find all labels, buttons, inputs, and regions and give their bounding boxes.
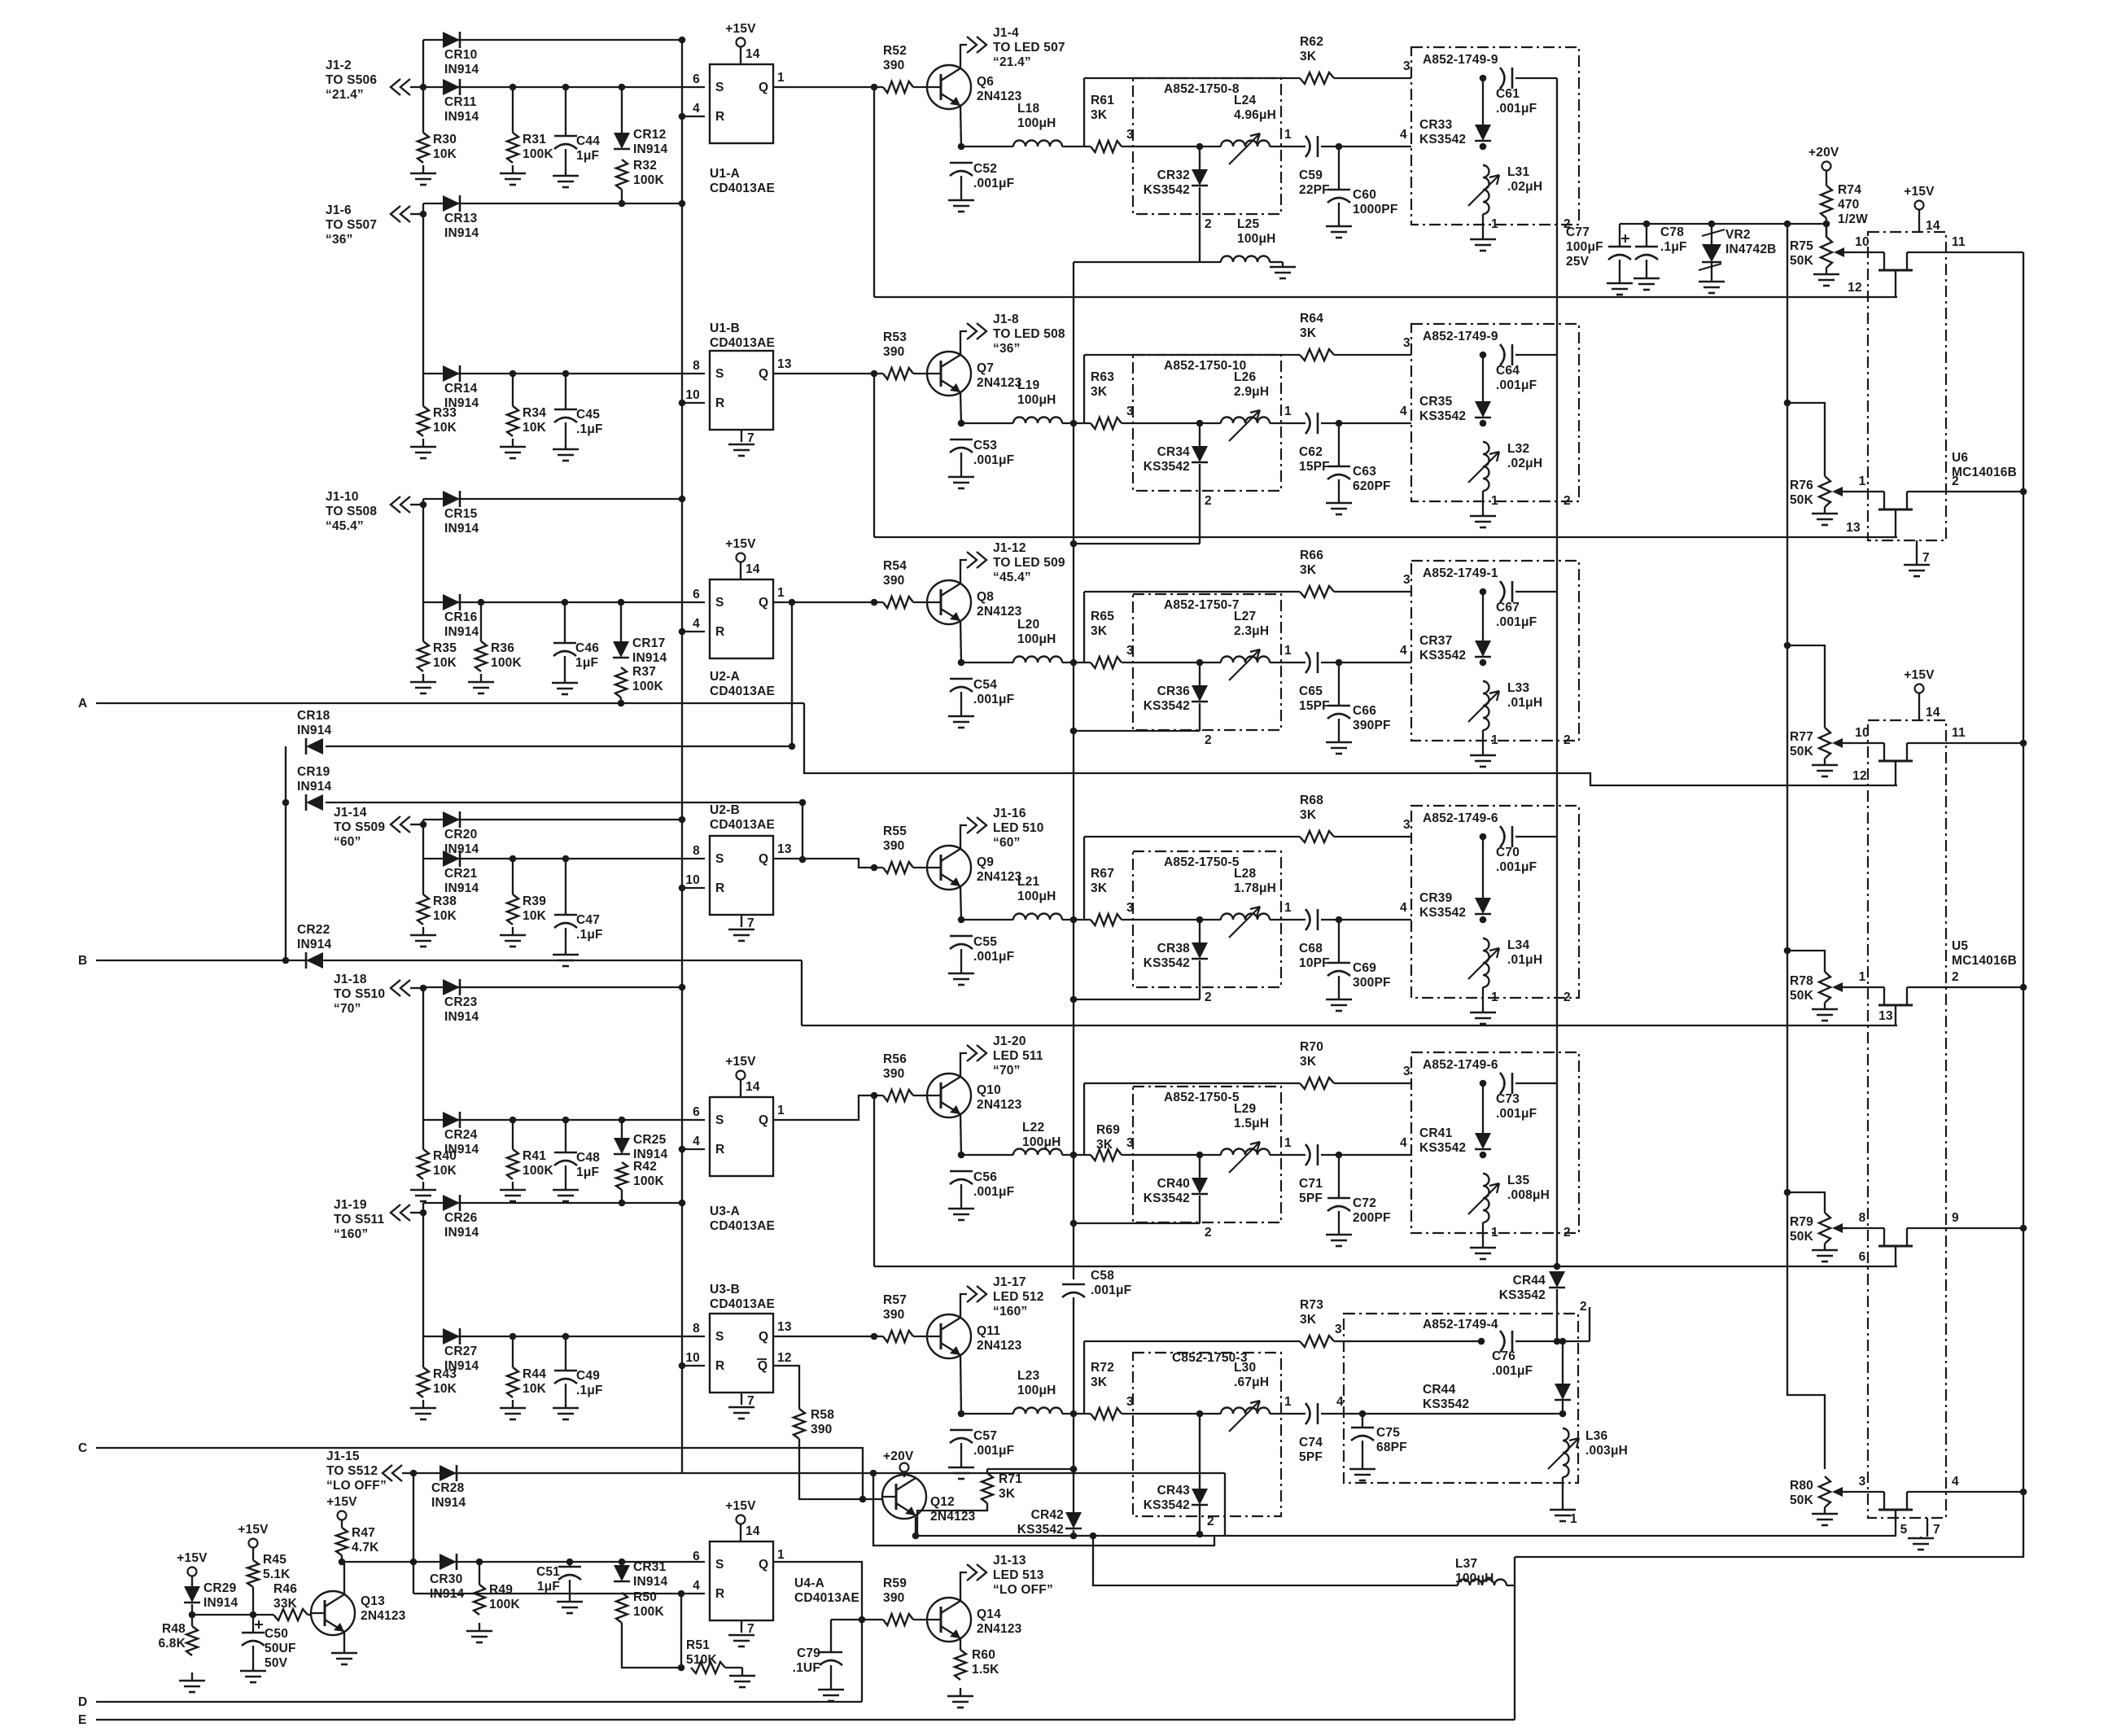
diode CR12 IN914 <box>614 128 668 156</box>
wire R49 stub <box>479 1562 480 1585</box>
wire output rail upper <box>1073 262 1074 1279</box>
svg-text:IN914: IN914 <box>444 625 479 639</box>
svg-text:Q8: Q8 <box>977 590 994 604</box>
capacitor C63 <box>1327 465 1391 493</box>
svg-text:1: 1 <box>777 586 785 600</box>
wire CRr stub row 4 <box>1482 837 1484 853</box>
flip-flop U2-A CD4013AE <box>693 579 785 658</box>
pin 11 label <box>1952 235 1966 249</box>
svg-text:J1-2: J1-2 <box>326 59 352 72</box>
svg-text:LED 512: LED 512 <box>993 1290 1044 1304</box>
power +15V U5 <box>1904 668 1935 693</box>
svg-text:100K: 100K <box>632 680 663 693</box>
svg-text:Q: Q <box>759 852 768 866</box>
svg-text:13: 13 <box>1878 1009 1893 1023</box>
wire out cap row 6 <box>1515 1340 1590 1342</box>
junction L37 left <box>1090 1533 1097 1540</box>
svg-text:R51: R51 <box>686 1638 710 1652</box>
junction J1-15 <box>410 1470 418 1477</box>
wire pin 2 out <box>1907 986 2023 988</box>
wire CR3 out <box>1199 703 1201 731</box>
svg-text:1: 1 <box>1491 990 1498 1004</box>
pin 14 label U6 <box>1926 219 1940 233</box>
wire main row 1 a <box>961 146 1013 147</box>
svg-text:L25: L25 <box>1237 217 1259 231</box>
svg-text:Q9: Q9 <box>977 855 994 869</box>
pin 13 label U6 <box>1846 521 1861 535</box>
svg-text:.001μF: .001μF <box>1091 1283 1131 1297</box>
diode CR37 KS3542 right <box>1419 634 1491 662</box>
junction C51 top <box>566 1559 574 1566</box>
ground below C78 <box>1633 270 1660 290</box>
wire CRr stub row 5 <box>1482 1083 1484 1100</box>
svg-text:CR29: CR29 <box>203 1581 237 1595</box>
svg-text:12: 12 <box>1848 281 1862 295</box>
diode CR27 IN914 <box>443 1328 479 1373</box>
svg-text:S: S <box>715 81 724 94</box>
svg-text:9: 9 <box>1952 1211 1959 1225</box>
svg-text:A852-1750-7: A852-1750-7 <box>1164 598 1240 612</box>
capacitor C65 <box>1299 652 1330 713</box>
svg-text:390: 390 <box>883 1067 904 1081</box>
flip-flop U3-A CD4013AE <box>693 1097 785 1176</box>
svg-text:L28: L28 <box>1234 867 1256 881</box>
svg-text:C48: C48 <box>576 1151 600 1165</box>
resistor R59 390 <box>883 1576 913 1625</box>
svg-text:CR16: CR16 <box>444 610 478 624</box>
junction R41 top <box>510 1117 517 1124</box>
wire output rail right <box>1515 252 2023 1557</box>
resistor R64 3K <box>1300 312 1334 361</box>
wire out cap row 1 <box>1515 77 1557 79</box>
svg-text:100K: 100K <box>491 656 522 670</box>
wire bus C <box>96 1448 863 1499</box>
svg-text:4: 4 <box>1336 1395 1344 1409</box>
wire CR1 stub <box>1199 146 1201 169</box>
capacitor C77 100uF 25V <box>1566 225 1631 269</box>
junction chain <box>679 816 686 824</box>
power +20V label Q12 <box>883 1450 914 1463</box>
svg-text:1: 1 <box>777 1104 785 1117</box>
ground below R77 <box>1812 763 1838 776</box>
wire CR2 out <box>1199 464 1201 544</box>
junction output rail 9 <box>2020 1225 2027 1232</box>
junction CR row 3 <box>1196 659 1204 667</box>
wire bus E <box>96 1719 1515 1721</box>
junction C78 <box>1643 221 1651 228</box>
ground U5 pin 7 <box>1908 1537 1934 1550</box>
diode CR14 IN914 <box>443 365 479 410</box>
junction top row 4 right box <box>1480 833 1487 841</box>
svg-text:R65: R65 <box>1091 610 1114 623</box>
wire C78 stub <box>1646 224 1647 247</box>
svg-text:.001μF: .001μF <box>1496 860 1537 874</box>
wire CR18 row <box>326 746 792 747</box>
wire C47 stub <box>565 859 566 915</box>
capacitor C75 <box>1351 1426 1407 1454</box>
wire CRr top row 5 <box>1482 1100 1484 1133</box>
junction emitter bus <box>912 1533 920 1540</box>
svg-text:IN914: IN914 <box>444 226 479 240</box>
wire emitter row 5 <box>960 1114 961 1155</box>
module A852-1749-6 box <box>1411 806 1579 998</box>
module A852-1750-7 box <box>1133 594 1281 730</box>
wire Q7 base row <box>773 373 883 374</box>
svg-text:3K: 3K <box>1091 108 1108 122</box>
wire R41 stub <box>512 1120 514 1149</box>
wire R77 wiper to pin 10 <box>1849 742 1884 744</box>
potentiometer R78 50K <box>1790 972 1849 1003</box>
node J1-10 input label <box>326 490 377 533</box>
wire top row 2 left <box>1084 354 1300 356</box>
wire coupling row 5 a <box>1270 1154 1305 1156</box>
svg-text:3: 3 <box>1403 1065 1410 1078</box>
svg-text:10K: 10K <box>523 1382 547 1396</box>
junction emitter row 2 <box>958 420 965 427</box>
wire out cap row 4 <box>1515 836 1557 837</box>
svg-text:10PF: 10PF <box>1299 956 1330 970</box>
svg-text:IN914: IN914 <box>444 1010 479 1024</box>
transistor Q8 2N4123 <box>927 580 1022 624</box>
svg-text:CR35: CR35 <box>1419 395 1453 409</box>
svg-text:“160”: “160” <box>993 1305 1027 1318</box>
diode CR23 IN914 <box>443 979 479 1024</box>
svg-text:+15V: +15V <box>725 1499 756 1513</box>
inductor L20 100uH <box>1013 618 1062 662</box>
svg-text:50UF: 50UF <box>265 1642 296 1655</box>
wire top row 6 drop <box>1083 1341 1085 1414</box>
node LED arrow row 6 <box>967 1286 986 1302</box>
pin 2 label row 6 top <box>1580 1300 1587 1314</box>
svg-text:R35: R35 <box>433 641 457 655</box>
wire CR6 stub <box>1199 1414 1201 1489</box>
svg-text:3K: 3K <box>1091 385 1108 399</box>
junction Q node row 4 <box>871 864 878 872</box>
svg-text:.02μH: .02μH <box>1507 457 1542 470</box>
node U1-A label <box>710 167 775 195</box>
svg-text:CD4013AE: CD4013AE <box>710 684 775 698</box>
svg-text:A852-1749-9: A852-1749-9 <box>1423 330 1498 343</box>
pin 14 label U2-A <box>746 562 760 576</box>
svg-text:L26: L26 <box>1234 370 1256 384</box>
ground below C60 <box>1326 218 1352 238</box>
svg-text:IN914: IN914 <box>297 938 332 951</box>
node LED label row 3 <box>993 541 1065 584</box>
pin 1 label row 1 <box>1284 128 1292 142</box>
svg-text:CR36: CR36 <box>1157 684 1191 698</box>
ground U6 pin 7 <box>1904 563 1930 576</box>
wire R31 stub <box>512 87 514 133</box>
svg-text:“36”: “36” <box>993 342 1021 356</box>
svg-text:1.5K: 1.5K <box>972 1663 999 1677</box>
wire chain to row6 <box>1556 1289 1558 1341</box>
wire pin 9 out <box>1907 1227 2023 1229</box>
power +15V U4-A <box>725 1499 756 1524</box>
wire CR4 stub <box>1199 920 1201 942</box>
svg-text:390: 390 <box>883 1308 904 1322</box>
svg-text:4: 4 <box>693 617 700 631</box>
transistor Q10 2N4123 <box>927 1074 1022 1117</box>
svg-text:3K: 3K <box>1300 50 1317 63</box>
wire collector row 4 <box>960 825 967 849</box>
wire U4-A R pin row <box>413 1593 705 1594</box>
node LED label row 2 <box>993 313 1065 356</box>
svg-text:12: 12 <box>1852 769 1867 783</box>
node J1-2 input label <box>326 59 377 102</box>
capacitor C46 1uF <box>553 641 599 670</box>
node J1-6 input label <box>326 203 377 247</box>
svg-text:2: 2 <box>1564 990 1571 1004</box>
wire R32 bottom to chain <box>621 190 623 203</box>
svg-text:R: R <box>715 1587 724 1601</box>
svg-text:2: 2 <box>1564 1226 1571 1240</box>
power +15V U6 <box>1904 185 1935 210</box>
pin 3 label row 1 left box <box>1126 128 1134 142</box>
ground below R41 <box>500 1182 526 1201</box>
diode CR38 KS3542 <box>1144 942 1208 970</box>
pin 13 label U5 <box>1878 1009 1893 1023</box>
svg-text:3K: 3K <box>1300 1313 1317 1327</box>
svg-text:100μH: 100μH <box>1017 116 1056 130</box>
svg-text:KS3542: KS3542 <box>1423 1397 1469 1411</box>
diode CR25 IN914 <box>614 1133 668 1161</box>
svg-text:15PF: 15PF <box>1299 460 1330 474</box>
wire emitter row 1 <box>960 106 961 146</box>
diode CR44 KS3542 <box>1499 1271 1565 1302</box>
capacitor C50 50UF 50V <box>242 1620 296 1670</box>
ground below R60 <box>947 1688 973 1708</box>
ground below R48 <box>179 1673 205 1692</box>
diode CR22 IN914 <box>297 923 332 969</box>
junction R51 vertical top <box>678 1590 685 1598</box>
svg-text:390PF: 390PF <box>1353 719 1391 732</box>
svg-text:2N4123: 2N4123 <box>977 870 1022 884</box>
svg-text:J1-8: J1-8 <box>993 313 1019 326</box>
junction control rail top <box>1784 221 1791 228</box>
svg-text:R30: R30 <box>433 133 457 146</box>
svg-text:2N4123: 2N4123 <box>361 1609 406 1623</box>
svg-text:2: 2 <box>1205 990 1212 1004</box>
junction R74 R75 <box>1823 221 1830 228</box>
svg-text:IN914: IN914 <box>444 110 479 124</box>
wire R44 stub <box>512 1336 514 1367</box>
wire J1-19 vertical <box>422 1203 424 1336</box>
junction shunt row 4 <box>1336 916 1343 924</box>
wire Q9 base row <box>773 859 883 868</box>
wire parallel drop a <box>873 1473 1214 1546</box>
wire top row 6 right <box>1334 1340 1481 1342</box>
svg-text:R32: R32 <box>633 159 657 173</box>
junction chain row6 top <box>1554 1338 1561 1345</box>
wire Q13 collector <box>343 1562 345 1594</box>
wire CR15 row <box>423 498 682 500</box>
wire CRr top row 2 <box>1482 371 1484 401</box>
diode CR10 IN914 <box>443 32 479 77</box>
svg-text:C49: C49 <box>576 1369 600 1383</box>
capacitor C66 <box>1327 704 1391 732</box>
junction chain R pin <box>679 400 686 407</box>
svg-text:2N4123: 2N4123 <box>977 1098 1022 1112</box>
capacitor C53 .001uF <box>950 439 1014 467</box>
ground below C49 <box>553 1400 579 1419</box>
svg-text:+15V: +15V <box>725 22 756 36</box>
wire R47 bottom <box>341 1555 343 1562</box>
pin 1 label row 1 right box <box>1491 217 1498 231</box>
wire out cap row 5 <box>1515 1082 1557 1084</box>
pin 2 label <box>1952 474 1959 488</box>
pin 2 label row 6 left box <box>1207 1515 1214 1528</box>
resistor R48 6.8K <box>158 1622 198 1655</box>
junction C45 top <box>562 370 570 378</box>
pin 1 label row 6 <box>1284 1395 1292 1409</box>
svg-text:KS3542: KS3542 <box>1144 956 1190 970</box>
diode CR30 IN914 <box>430 1554 465 1601</box>
node LED label row 1 <box>993 26 1065 69</box>
wire main row 4 b <box>1062 919 1091 920</box>
wire R78 bottom <box>1824 1003 1826 1007</box>
wire pin 11 out <box>1907 251 2023 253</box>
wire top row 2 right <box>1334 354 1411 356</box>
node J1-15 input label <box>326 1450 387 1493</box>
junction mid row 3 right box <box>1480 659 1487 667</box>
transistor Q13 2N4123 <box>311 1591 406 1635</box>
wire emitter row 3 <box>960 621 961 662</box>
wire R pin stub <box>682 887 705 889</box>
junction CR31 top <box>619 1559 626 1566</box>
node U6 label <box>1952 451 2017 479</box>
junction top row 2 right box <box>1480 352 1487 359</box>
svg-text:R41: R41 <box>523 1149 546 1163</box>
svg-text:IN4742B: IN4742B <box>1725 243 1777 256</box>
junction C47 top <box>562 855 570 863</box>
svg-text:U3-B: U3-B <box>710 1283 740 1297</box>
resistor R73 3K <box>1300 1298 1334 1347</box>
wire CR28 row <box>413 1472 1225 1474</box>
svg-text:R69: R69 <box>1096 1123 1120 1137</box>
junction rail feedback row 4 <box>1070 996 1078 1004</box>
svg-text:A852-1750-8: A852-1750-8 <box>1164 82 1240 96</box>
wire R43 stub <box>422 1336 424 1367</box>
inductor L24 variable <box>1221 94 1276 164</box>
svg-text:IN914: IN914 <box>633 1575 668 1589</box>
junction CR42 node <box>1070 1533 1078 1540</box>
junction mid row 2 right box <box>1480 420 1487 427</box>
wire R78 wiper to pin 1 <box>1849 986 1884 988</box>
svg-text:CR17: CR17 <box>632 636 665 650</box>
inductor L27 variable <box>1221 610 1270 680</box>
svg-text:C44: C44 <box>576 134 600 148</box>
svg-text:2: 2 <box>1564 733 1571 747</box>
ground below C57 <box>948 1459 974 1479</box>
resistor R52 390 <box>883 44 913 93</box>
ground below C50 <box>240 1663 266 1682</box>
svg-text:.001μF: .001μF <box>973 1185 1014 1199</box>
wire top row 3 right <box>1334 591 1411 593</box>
wire Q14 collector <box>960 1572 967 1601</box>
svg-text:10K: 10K <box>433 1164 457 1178</box>
svg-text:CR43: CR43 <box>1157 1484 1191 1498</box>
junction CR30 row J1-15 <box>410 1559 418 1566</box>
pin 2 label row 5 left box <box>1205 1226 1212 1240</box>
node J1-2 arrow <box>391 79 422 95</box>
diode CR19 IN914 <box>297 765 332 811</box>
svg-text:L37: L37 <box>1455 1557 1477 1571</box>
svg-text:TO S508: TO S508 <box>326 505 377 518</box>
svg-text:R71: R71 <box>999 1472 1022 1486</box>
svg-text:L33: L33 <box>1507 681 1529 695</box>
diode CR26 IN914 <box>443 1195 479 1240</box>
pin 2 label row 2 right box <box>1564 494 1571 508</box>
junction emitter row 5 <box>958 1152 965 1159</box>
node LED arrow row 2 <box>967 323 986 339</box>
node LED arrow row 3 <box>967 552 986 568</box>
svg-text:Q: Q <box>759 81 768 94</box>
svg-text:.1μF: .1μF <box>576 928 603 942</box>
junction chain R pin <box>679 628 686 636</box>
svg-text:R: R <box>715 625 724 639</box>
svg-text:MC14016B: MC14016B <box>1952 954 2017 968</box>
wire C49 stub <box>565 1336 566 1371</box>
junction C44 top <box>562 84 570 91</box>
node U4-A label <box>794 1576 859 1605</box>
wire CR31 stub <box>621 1562 623 1565</box>
wire Lv bottom row 4 <box>1482 987 1484 1004</box>
svg-text:33K: 33K <box>273 1597 298 1611</box>
wire top row 4 drop <box>1083 837 1085 920</box>
diode CR15 IN914 <box>443 491 479 536</box>
svg-text:CR19: CR19 <box>297 765 330 779</box>
resistor R40 10K <box>418 1149 457 1179</box>
pin 2 label row 2 left box <box>1205 494 1212 508</box>
ground below Q13 <box>331 1645 357 1664</box>
svg-text:1/2W: 1/2W <box>1838 212 1868 226</box>
wire Q6 control vertical <box>873 87 875 297</box>
svg-text:2: 2 <box>1205 494 1212 508</box>
wire coupling row 1 b <box>1321 146 1411 147</box>
wire C77 bottom <box>1619 260 1620 275</box>
svg-text:CD4013AE: CD4013AE <box>710 336 775 350</box>
svg-text:R42: R42 <box>633 1160 657 1174</box>
wire +15V U1-A stem <box>740 47 741 64</box>
node LED label row 6 <box>993 1275 1044 1318</box>
svg-text:C50: C50 <box>265 1627 288 1641</box>
junction CR44 control <box>1554 1263 1561 1270</box>
node bus E label <box>78 1713 87 1727</box>
svg-text:14: 14 <box>1926 706 1940 719</box>
wire R39 stub <box>512 859 514 894</box>
resistor R53 390 <box>883 330 913 379</box>
svg-text:3K: 3K <box>1091 624 1108 638</box>
svg-text:7: 7 <box>747 916 754 930</box>
ground below R80 <box>1812 1511 1838 1525</box>
wire C54 bottom <box>960 692 962 708</box>
pin 5 label U5 <box>1900 1523 1908 1537</box>
svg-text:Q10: Q10 <box>977 1083 1001 1097</box>
inductor L33 variable <box>1468 681 1542 730</box>
svg-text:4: 4 <box>1400 901 1407 915</box>
wire top row 3 drop <box>1083 592 1085 662</box>
svg-text:IN914: IN914 <box>632 651 667 665</box>
resistor R46 33K <box>273 1582 308 1620</box>
capacitor C70 .001uF <box>1496 826 1537 874</box>
svg-text:KS3542: KS3542 <box>1144 1192 1190 1205</box>
svg-text:L32: L32 <box>1507 442 1529 456</box>
junction R42 bottom <box>619 1200 626 1207</box>
potentiometer R75 50K <box>1790 237 1851 268</box>
pin 1 label row 6 right box <box>1570 1512 1577 1526</box>
wire CR21 row to U2-B pin 8 <box>423 858 705 859</box>
resistor R56 390 <box>883 1052 913 1101</box>
